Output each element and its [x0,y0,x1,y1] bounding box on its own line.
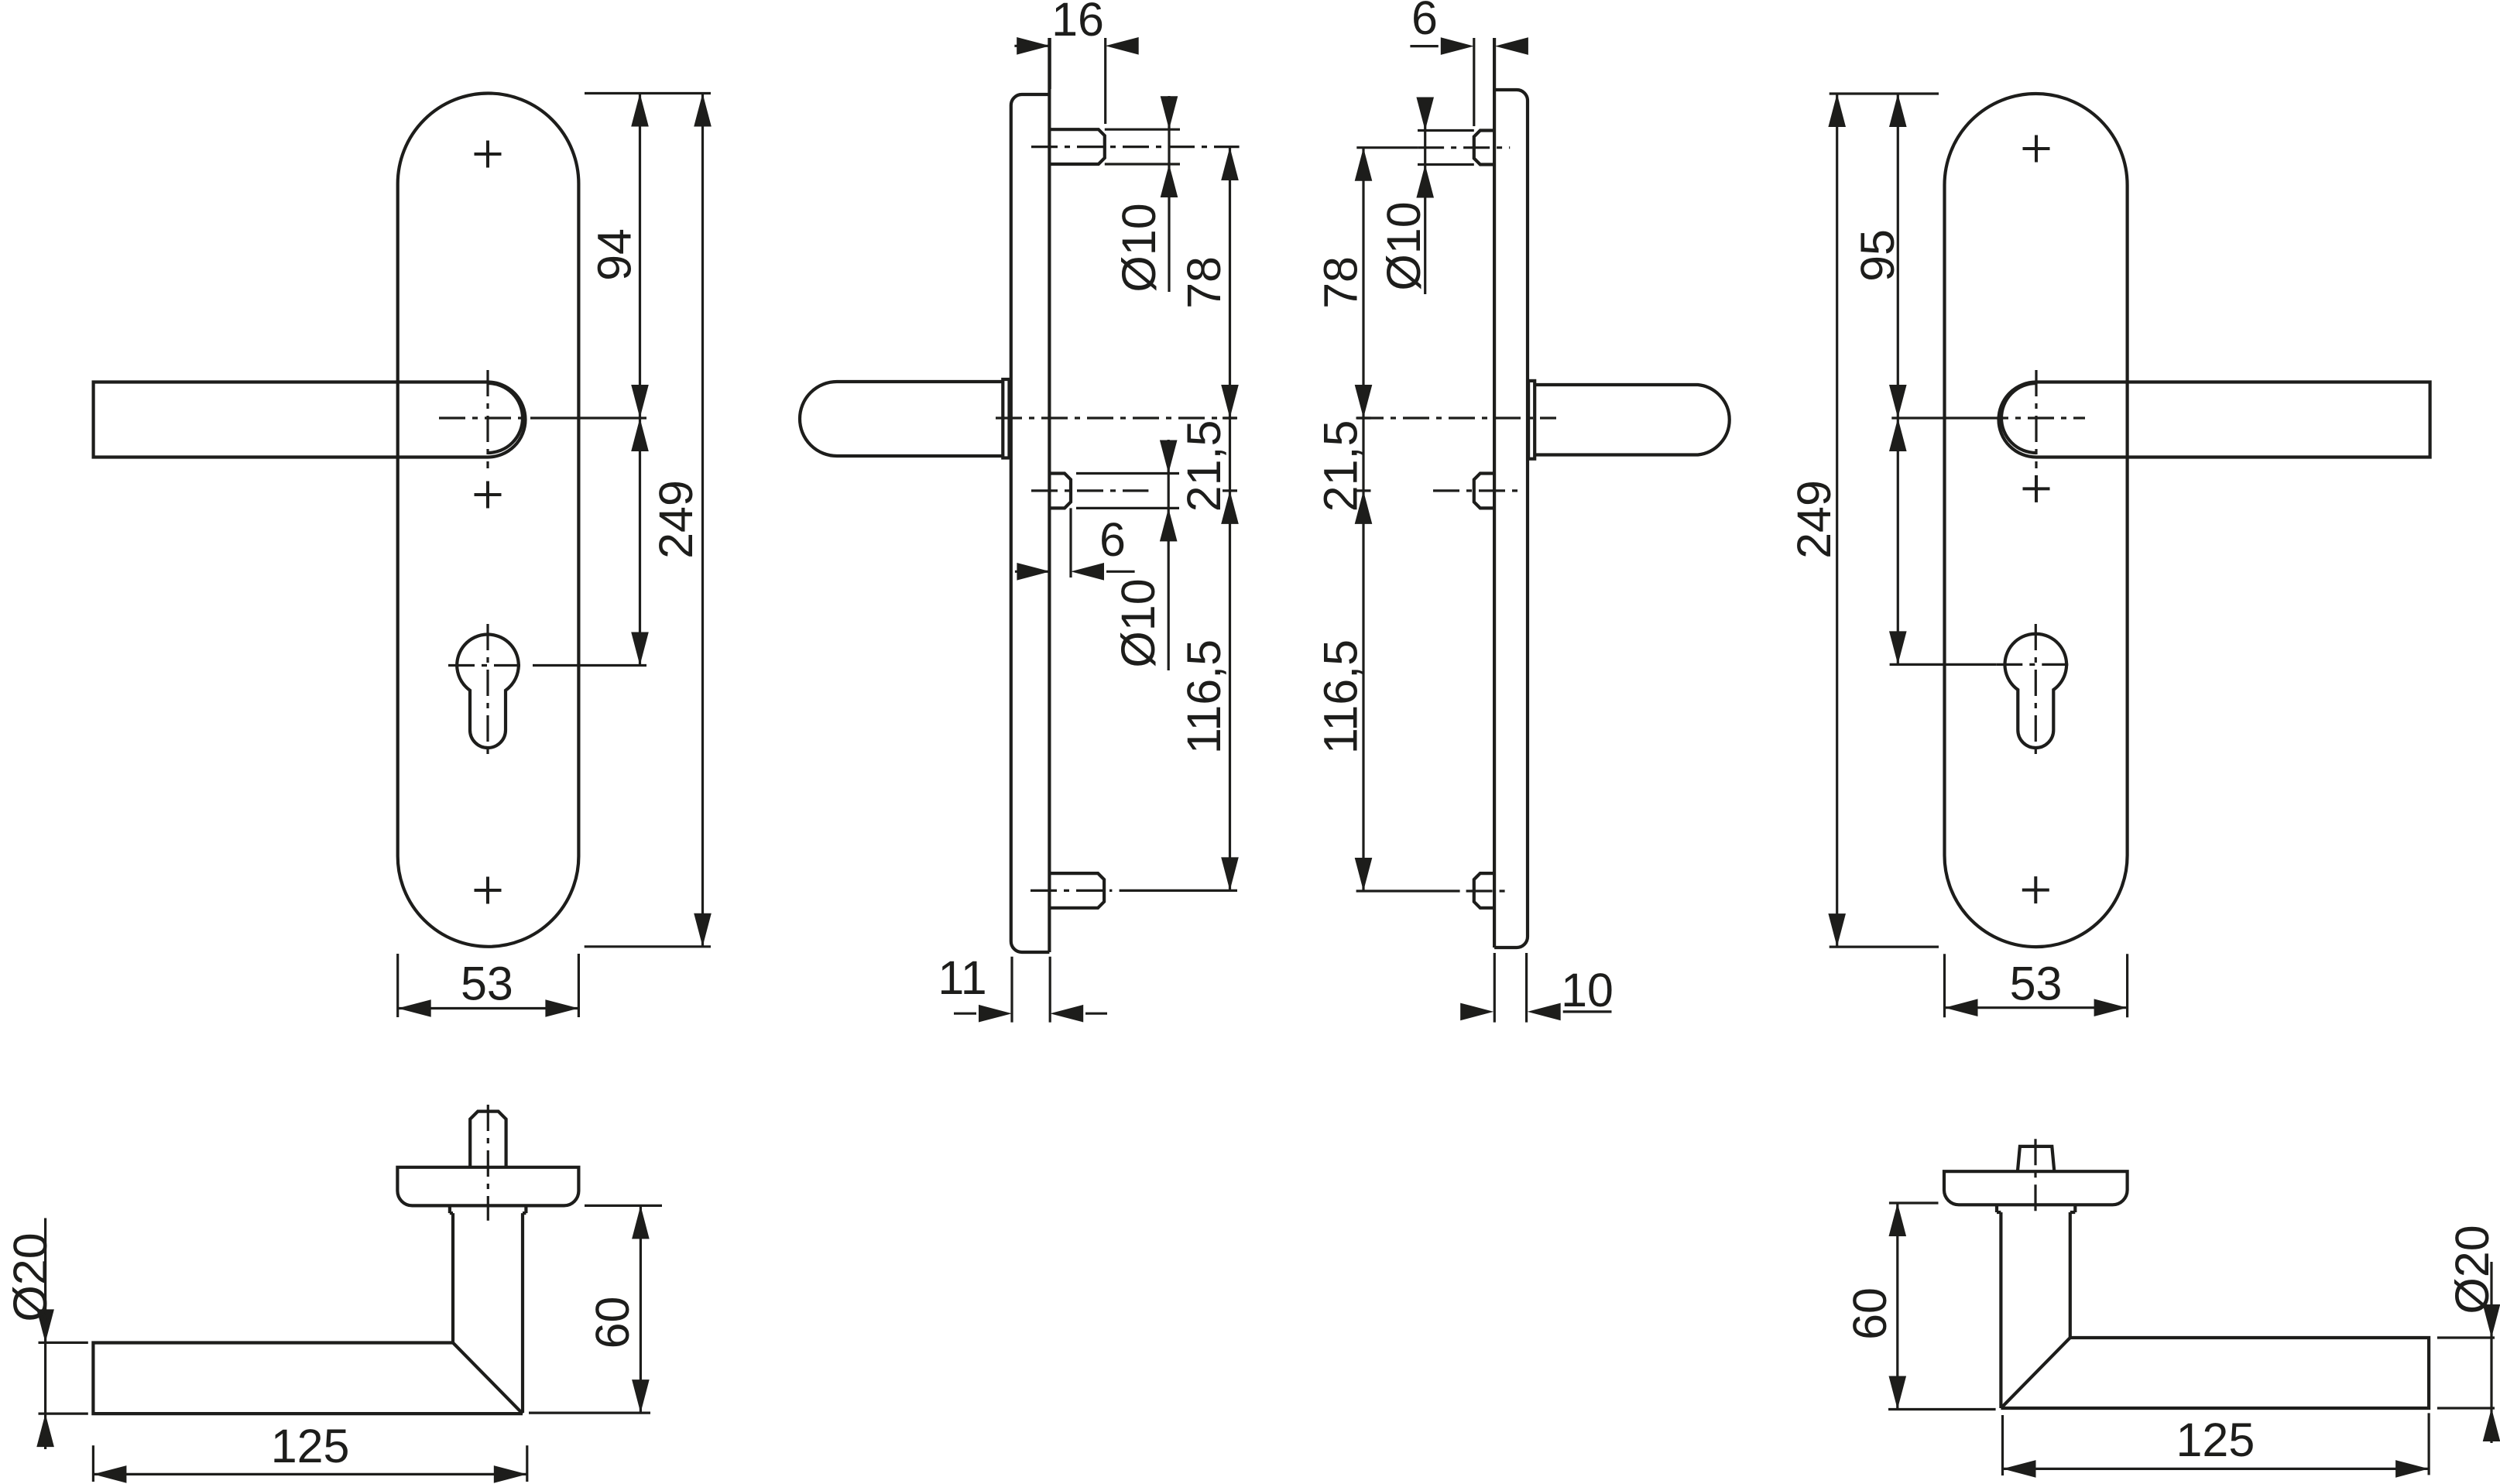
plate (front view, right) [1945,94,2128,947]
screw cross bottom (view1) [475,877,502,904]
extension line plate bottom (view4) [1830,945,1939,948]
screw cross bottom (view4) [2022,876,2049,903]
dimension 16 (view2) [1014,37,1138,124]
spindle centerline (view5) [487,1105,489,1221]
svg-text:6: 6 [1411,0,1438,44]
plate (front view, left) [398,94,579,947]
svg-text:Ø10: Ø10 [1113,203,1165,292]
PZ cylinder keyhole (view4) [2005,634,2067,748]
top screw boss (side view right) [1474,131,1494,165]
label diameter 10 top (view2) [1113,203,1165,292]
label 21,5 (view3) [1315,420,1367,512]
extension line cylinder axis (view4) [1890,663,1997,666]
dimension 53 (view4) [1945,954,2128,1017]
extension line cylinder axis (view1) [533,664,646,667]
dimension column 78 / 21,5 / 116,5 (view3) [1355,148,1373,891]
label 116,5 (view2) [1178,639,1230,754]
label 6 (view3) [1411,0,1438,44]
label 78 (view2) [1178,256,1230,309]
top screw boss (side view left) [1049,129,1104,164]
dimension 11 (view2) [954,957,1107,1023]
lever handle bar (front view left) [94,382,488,458]
dimension diameter 20 (view5) [36,1218,88,1450]
spindle (bottom view left) [470,1112,506,1167]
label 60 (view6) [1843,1287,1896,1340]
handle neck arcs (front view left) [488,382,526,458]
svg-text:Ø10: Ø10 [1377,201,1430,290]
mid screw boss (side view left) [1049,474,1071,509]
handle neck (bottom view left) [453,1213,523,1413]
screw cross top (view4) [2023,135,2050,163]
centerline bottom boss (view2) [1031,889,1237,892]
label diameter 20 (view5) [4,1232,57,1321]
svg-text:125: 125 [271,1420,350,1472]
label diameter 10 (view3) [1377,201,1430,290]
handle neck centerlines (view1) [439,370,542,468]
dimension diameter 10 (view3) [1416,98,1473,295]
dimension diameter 20 (view6) [2437,1262,2500,1443]
label 94 [588,228,641,281]
screw cross top (view1) [475,141,502,168]
handle neck (bottom view right) [2001,1212,2070,1408]
lever handle bar (front view right) [2036,382,2430,458]
dimension 6 (view3) [1410,37,1528,126]
handle collar (side view left) [1003,379,1009,458]
centerline bottom boss (view3) [1356,889,1510,892]
label 125 (view5) [271,1420,350,1472]
svg-text:116,5: 116,5 [1178,639,1230,754]
svg-text:116,5: 116,5 [1315,639,1367,754]
extension line plate top (view1) [585,92,711,94]
dimension 249 line (view1) [694,94,712,947]
rose (bottom view right) [1944,1171,2128,1205]
dimension 10 (view3) [1460,953,1611,1023]
dimension 94 line (view1) [631,94,649,666]
centerline handle axis (view2) [996,416,1236,419]
keyhole centerlines (view1) [448,624,527,757]
centerline mid boss (view3) [1433,489,1522,492]
extension line plate bottom (view1) [585,945,711,948]
svg-text:60: 60 [1843,1287,1896,1340]
svg-text:60: 60 [586,1297,639,1349]
svg-text:78: 78 [1315,256,1367,309]
svg-text:53: 53 [2010,957,2063,1009]
bottom screw boss (side view right) [1474,873,1494,908]
dimension 6 (view2) [1015,508,1135,580]
svg-text:95: 95 [1851,229,1904,282]
svg-text:78: 78 [1178,256,1230,309]
label 78 (view3) [1315,256,1367,309]
keyhole centerlines (view4) [1996,624,2075,757]
backplate profile (side view right) [1494,38,1528,948]
label 60 (view5) [586,1297,639,1349]
handle grip (side view right) [1535,385,1730,455]
svg-text:6: 6 [1099,513,1126,566]
handle neck arcs (front view right) [1999,382,2037,458]
label diameter 10 mid (view2) [1112,578,1164,667]
svg-text:Ø20: Ø20 [4,1232,57,1321]
backplate profile (side view left) [1011,38,1050,952]
grip bar (bottom view left) [93,1343,523,1414]
svg-text:125: 125 [2176,1414,2255,1466]
dimension diameter 10 top (view2) [1105,96,1180,292]
svg-text:21,5: 21,5 [1315,420,1367,512]
extension line handle axis (view1) [542,416,646,419]
mid screw boss (side view right) [1474,474,1494,509]
miter joint line (bottom view left) [453,1343,523,1414]
dimension 60 (view6) [1888,1203,1996,1410]
dimension 249 line (view4) [1828,94,1846,947]
handle neck centerlines (view4) [1982,370,2085,468]
rose (bottom view left) [397,1167,578,1206]
grip bar (bottom view right) [2001,1338,2429,1408]
svg-text:10: 10 [1561,964,1614,1016]
neck collar (bottom view right) [1997,1205,2075,1212]
svg-text:53: 53 [461,958,513,1010]
PZ cylinder keyhole (view1) [457,635,519,748]
screw cross below handle (view1) [475,482,502,509]
label 21,5 (view2) [1178,420,1230,512]
centerline top boss (view3) [1356,146,1510,149]
label 53 (view1) [461,958,513,1010]
svg-text:16: 16 [1051,0,1104,46]
label 249 (view4) [1788,480,1840,559]
label 16 [1051,0,1104,46]
spindle stub (bottom view right) [2018,1146,2054,1171]
screw cross below handle (view4) [2023,475,2050,502]
svg-text:249: 249 [650,480,702,559]
dimension 95 line (view4) [1889,94,1907,664]
label 53 (view4) [2010,957,2063,1009]
extension line plate top (view4) [1830,92,1939,94]
svg-text:249: 249 [1788,480,1840,559]
label 11 (view2) [938,951,986,1004]
svg-text:Ø20: Ø20 [2446,1225,2498,1314]
svg-text:94: 94 [588,228,641,281]
label 95 (view4) [1851,229,1904,282]
centerline handle axis (view3) [1357,416,1556,419]
miter joint line (bottom view right) [2001,1338,2070,1408]
label 10 (view3) [1561,964,1614,1016]
label diameter 20 (view6) [2446,1225,2498,1314]
handle grip (side view left) [800,382,1003,456]
dimension 60 (view5) [529,1205,662,1413]
svg-text:11: 11 [938,951,986,1004]
bottom screw boss (side view left) [1049,873,1104,908]
dimension 125 (view5) [93,1445,526,1483]
dimension 125 (view6) [2003,1413,2430,1477]
spindle centerline (view6) [2034,1139,2036,1215]
label 6 (view2) [1099,513,1126,566]
label 116,5 (view3) [1315,639,1367,754]
handle collar (side view right) [1528,381,1535,459]
centerline top boss (view2) [1031,146,1240,148]
svg-text:21,5: 21,5 [1178,420,1230,512]
dimension column 78 / 21,5 / 116,5 (view2) [1221,147,1239,890]
label 125 (view6) [2176,1414,2255,1466]
centerline mid boss (view2) [1031,489,1148,492]
neck collar (bottom view left) [450,1205,526,1213]
dimension 53 (view1) [398,954,579,1017]
label 249 (view1) [650,480,702,559]
extension line handle axis (view4) [1891,416,1982,419]
svg-text:Ø10: Ø10 [1112,578,1164,667]
dimension diameter 10 mid (view2) [1076,440,1179,670]
